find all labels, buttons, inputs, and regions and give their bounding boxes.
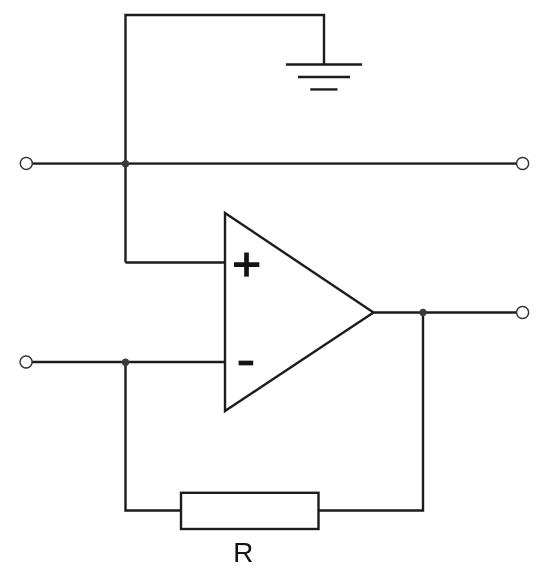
svg-text:R: R (233, 537, 253, 568)
